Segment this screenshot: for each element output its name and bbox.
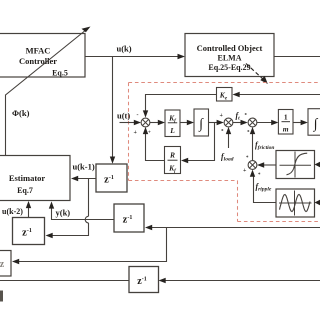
svg-text:L: L (169, 126, 175, 135)
wire u(k-2) up into Estimator (26, 201, 31, 218)
wire z-1 delay 4 output to left edge (0, 280, 129, 282)
block friction characteristic (276, 151, 315, 179)
svg-text:ffriction: ffriction (255, 141, 274, 152)
wire current branch down to R/Kf (187, 122, 215, 160)
wire 1/m to integrator 2 (293, 120, 308, 125)
block Estimator Eq.7 (0, 156, 70, 201)
left edge artifact mark (0, 291, 3, 302)
svg-text:Kf: Kf (168, 164, 177, 175)
red dashed model boundary box (129, 83, 320, 222)
wire back-emf feedback from right edge into Ke (233, 92, 320, 97)
svg-text:+: + (134, 130, 138, 136)
svg-text:Eq.7: Eq.7 (17, 186, 33, 195)
wire Phi(k) adaptation line with diagonal arrow through MFAC box (6, 27, 91, 156)
block 1/m (278, 110, 293, 135)
svg-text:ELMA: ELMA (218, 54, 242, 63)
svg-text:+: + (243, 168, 247, 174)
wire friction block output into J4 (257, 162, 276, 167)
wire integrator 1 to J2 (209, 120, 224, 125)
svg-text:z-1: z-1 (104, 175, 114, 186)
block ripple sine characteristic (276, 189, 315, 217)
wire R/Kf output up into J1 (143, 127, 165, 161)
svg-text:Controlled Object: Controlled Object (197, 43, 263, 53)
wire J3 to 1/m (256, 120, 278, 125)
svg-text:u(t): u(t) (117, 111, 130, 121)
svg-text:y(k): y(k) (56, 208, 71, 218)
node f_load input (226, 127, 231, 148)
block integrator 1 (194, 109, 209, 136)
wire velocity input into sine block from right edge (315, 200, 320, 205)
wire u(k-1) from z-1 into Estimator (71, 176, 96, 181)
svg-text:*: * (221, 130, 224, 135)
block Controlled Object ELMA Eq.25-Eq.29 (185, 34, 274, 77)
svg-text:Ke: Ke (219, 91, 228, 102)
svg-text:z: z (0, 259, 5, 270)
block z-1 delay 2 (u(k-1) to u(k-2)) (13, 218, 45, 245)
block z-1 delay 3 (y feedback) (114, 204, 144, 232)
svg-text:z-1: z-1 (123, 215, 133, 226)
block integrator 2 (cut at right edge) (308, 109, 320, 136)
wire output feedback from right edge into z-1 delay 3 (145, 225, 320, 230)
svg-text:u(k): u(k) (117, 44, 132, 54)
svg-text:Φ(k): Φ(k) (12, 108, 30, 118)
block MFAC Controller Eq.5 (0, 34, 85, 78)
wire velocity input into friction block from right edge (315, 162, 320, 167)
svg-text:MFAC: MFAC (26, 46, 51, 56)
svg-text:R: R (169, 151, 175, 160)
summing junction J4 (243, 156, 261, 178)
wire J2 to J3 (232, 120, 247, 125)
block R/Kf (165, 147, 181, 175)
dashed zoom arrow from ELMA to model box (246, 64, 268, 85)
svg-text:m: m (283, 125, 289, 134)
wire Ke output down into J1 (143, 95, 217, 118)
wire J1 to Kf/L block (150, 120, 165, 125)
svg-text:∫: ∫ (313, 117, 319, 132)
svg-text:Eq.25-Eq.29: Eq.25-Eq.29 (208, 63, 250, 72)
svg-text:u(k-1): u(k-1) (73, 162, 95, 172)
wire u(k-1) branch down to z-1 delay 2 with hop over y(k) (46, 178, 89, 238)
wire y(k) from z-1 delay 3 into Estimator (49, 201, 114, 219)
wire u(t) into summing junction J1 (120, 120, 142, 125)
wire Kf/L to integrator 1 (180, 120, 194, 125)
wire from right edge into z-1 delay 4 (159, 278, 320, 283)
svg-text:*: * (247, 131, 250, 136)
wire plant output to right edge (274, 56, 320, 58)
wire branch down from feedback to left edge block (12, 227, 167, 264)
svg-text:-: - (137, 113, 139, 119)
svg-text:ft: ft (236, 111, 241, 122)
block z-1 delay 4 (bottom) (129, 267, 159, 293)
svg-text:u(k-2): u(k-2) (2, 207, 23, 216)
block Ke (217, 88, 233, 102)
svg-text:Eq.5: Eq.5 (52, 69, 68, 78)
wire u(k) from MFAC to Controlled Object (85, 54, 185, 59)
summing junction J3 (245, 114, 257, 136)
wire u(k) branch down to z-1 (110, 56, 115, 164)
arrow into R/Kf (181, 158, 188, 163)
summing junction J2 (220, 113, 233, 135)
svg-text:*: * (245, 114, 248, 119)
svg-text:z-1: z-1 (22, 228, 32, 239)
svg-text:z-1: z-1 (137, 276, 146, 287)
wire sine block output up into J4 as f_ripple (250, 170, 276, 203)
svg-text:+: + (220, 113, 224, 119)
svg-text:+: + (148, 131, 151, 136)
block Kf/L (165, 110, 180, 137)
block z-1 delay 1 (u(k) to u(k-1)) (96, 164, 127, 192)
block z-1 delay at left edge (cut) (0, 251, 11, 277)
svg-text:fload: fload (221, 152, 234, 163)
svg-text:*: * (258, 173, 261, 178)
svg-text:Estimator: Estimator (9, 173, 46, 183)
svg-text:1: 1 (284, 113, 288, 122)
summing junction J1 (134, 113, 152, 137)
node f_friction input from J4 to J3 (250, 127, 255, 161)
svg-text:fripple: fripple (256, 182, 272, 193)
svg-text:∫: ∫ (198, 117, 204, 132)
svg-text:*: * (246, 156, 249, 161)
